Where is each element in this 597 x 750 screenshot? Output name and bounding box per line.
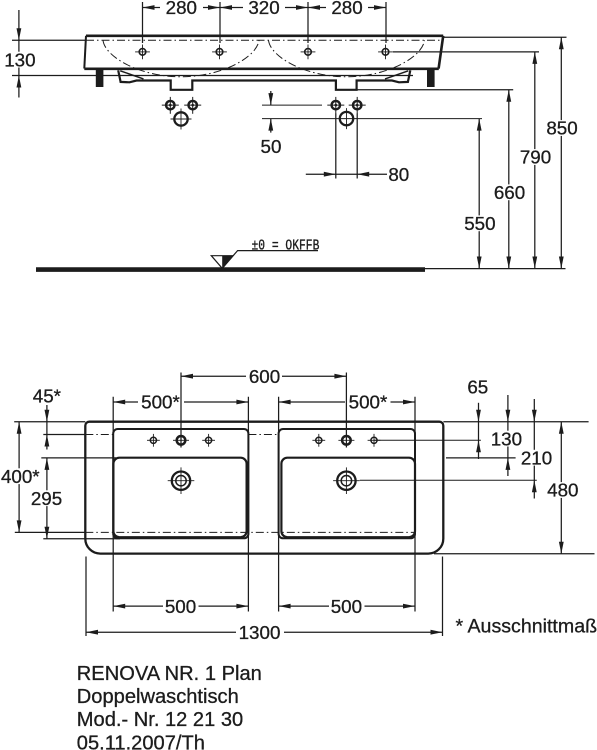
svg-text:600: 600 — [249, 366, 280, 387]
dim text 550 — [462, 215, 498, 231]
left ext: bowl rim rear (295) — [43, 538, 120, 540]
tap hole 3 (front view) — [305, 49, 312, 56]
svg-text:65: 65 — [467, 376, 488, 397]
svg-text:130: 130 — [4, 49, 35, 70]
dimension 500* left — [113, 400, 125, 405]
right wall bracket (black) — [427, 70, 435, 87]
svg-text:280: 280 — [331, 0, 362, 18]
cutout front line (dash-dot) centre segment — [248, 434, 278, 436]
dimension 790 — [532, 52, 537, 64]
svg-text:400*: 400* — [1, 466, 40, 487]
dimension 295 — [45, 458, 50, 470]
svg-text:50: 50 — [261, 136, 282, 157]
svg-text:Doppelwaschtisch: Doppelwaschtisch — [77, 686, 239, 708]
left under-edge chamfer line — [120, 71, 143, 79]
1300 left extension — [85, 557, 87, 637]
svg-text:130: 130 — [491, 428, 522, 449]
floor line (thin extension) — [418, 268, 566, 270]
dim text 660 — [492, 184, 528, 200]
basin right edge (front view) — [439, 36, 444, 69]
dimension 500* right — [279, 400, 291, 405]
130 top extension line — [12, 39, 86, 41]
dimension 500 bottom left — [113, 604, 125, 609]
dim text 850 — [544, 120, 580, 136]
svg-text:05.11.2007/Th: 05.11.2007/Th — [77, 732, 205, 750]
dimension 210 — [533, 399, 535, 422]
tap hole group at x=181.0 (plan) — [150, 437, 156, 443]
left ext: cutout front (45*) — [43, 434, 85, 436]
660 top extension line (drain box level) — [357, 89, 513, 91]
svg-text:45*: 45* — [33, 386, 62, 407]
dimension line 280/320/280 — [143, 7, 161, 9]
dim text 400* — [0, 468, 42, 484]
under-basin profile with fixing lugs and two drain boxes — [118, 70, 410, 90]
right under-edge chamfer line — [385, 71, 408, 79]
dim text 45* — [29, 388, 65, 404]
left deck edge (plan) — [113, 429, 248, 538]
right ext: basin rear edge (480) — [434, 553, 595, 555]
dim text 130 — [2, 52, 38, 68]
left ext: basin front edge — [14, 421, 85, 423]
svg-text:500: 500 — [331, 596, 362, 617]
svg-text:550: 550 — [464, 213, 495, 234]
dimension 850 — [559, 37, 564, 49]
cutout front line (dash-dot) left segment — [85, 434, 113, 436]
floor level symbol ±0 = OKFFB — [211, 256, 233, 269]
left bowl water supply symbols — [166, 101, 174, 109]
left ext: cutout rear (400*) — [15, 531, 86, 533]
left wall bracket (black) — [96, 70, 104, 87]
dim text 790 — [518, 149, 554, 165]
dimension 65 — [478, 403, 480, 422]
right deck edge (plan) — [279, 429, 415, 538]
dimension 45* — [46, 405, 48, 422]
left bowl drain symbol — [174, 112, 187, 125]
dimension 660 — [506, 90, 511, 102]
svg-text:Mod.- Nr. 12 21 30: Mod.- Nr. 12 21 30 — [77, 709, 243, 731]
790 top extension line (tap hole level) — [393, 51, 539, 53]
drain at x=346.4 (plan) — [337, 472, 355, 490]
svg-text:320: 320 — [248, 0, 279, 18]
dimension 480 — [559, 422, 564, 434]
svg-text:80: 80 — [388, 164, 409, 185]
right bowl rim (plan) — [281, 458, 415, 538]
svg-text:±0 = OKFFB: ±0 = OKFFB — [252, 237, 320, 254]
dimension 600 — [181, 374, 193, 379]
tap hole 1 (front view) — [139, 49, 146, 56]
svg-text:295: 295 — [31, 488, 62, 509]
dimension 550 — [477, 119, 482, 131]
ext line drain level to 210 dim — [360, 479, 537, 481]
extension lines through plan view (cutout edges) — [112, 397, 114, 612]
right bowl drain symbol + 550 reference line — [262, 118, 482, 120]
svg-text:1300: 1300 — [239, 622, 281, 643]
level text — [252, 237, 320, 254]
extension lines for 600 dim (tap centres) — [180, 373, 182, 448]
cutout rear line (dash-dot) — [85, 531, 415, 533]
right ext: basin front edge — [443, 421, 588, 423]
svg-text:480: 480 — [547, 480, 578, 501]
dimension 80 (supply spacing) — [335, 114, 337, 179]
svg-text:500*: 500* — [141, 392, 180, 413]
svg-text:500: 500 — [165, 596, 196, 617]
svg-text:660: 660 — [494, 182, 525, 203]
svg-text:790: 790 — [520, 147, 551, 168]
130 bottom extension line (full width) — [12, 75, 413, 77]
850 top extension line — [443, 36, 566, 38]
dim text 295 — [29, 490, 65, 506]
right bowl hidden contour arc — [269, 40, 425, 77]
dimension 130 (plan right) — [507, 395, 509, 422]
dim text 480 — [545, 482, 581, 498]
dim text 130 plan — [489, 431, 525, 447]
dim text 210 — [519, 450, 555, 466]
dimension 130 (front view left) — [18, 10, 20, 40]
tap hole 4 (front view) — [382, 49, 389, 56]
svg-text:RENOVA NR. 1 Plan: RENOVA NR. 1 Plan — [77, 663, 262, 685]
tap hole group at x=346.4 (plan) — [316, 437, 322, 443]
svg-text:500*: 500* — [349, 392, 388, 413]
drain at x=181.0 (plan) — [172, 472, 190, 490]
svg-text:850: 850 — [546, 118, 577, 139]
dimension 400* — [17, 422, 22, 434]
floor line (thick) — [36, 267, 425, 272]
left bowl hidden contour arc — [103, 40, 259, 77]
basin left edge (front view) — [84, 36, 86, 69]
right bowl water supply symbols — [262, 104, 322, 106]
basin apron bottom edge (front view) — [84, 68, 439, 71]
svg-text:210: 210 — [521, 447, 552, 468]
1300 right extension — [442, 557, 444, 637]
extension lines for tap hole dimensions — [142, 2, 144, 43]
left bowl rim (plan) — [113, 458, 246, 538]
dimension 50 (supply vs drain height) — [270, 91, 272, 105]
basin outline (plan view) — [85, 422, 443, 554]
ext line tap level to 65 dim — [374, 439, 481, 441]
dimension 500 bottom right — [279, 604, 291, 609]
tap hole 2 (front view) — [216, 49, 223, 56]
svg-text:280: 280 — [166, 0, 197, 18]
svg-text:* Ausschnittmaß: * Ausschnittmaß — [456, 615, 597, 637]
right ext: bowl rim front (130) — [446, 457, 516, 459]
left ext: bowl rim front (295) — [41, 457, 116, 459]
basin top edge (front view) — [86, 34, 443, 37]
dimension 1300 — [86, 630, 98, 635]
hidden rim line (dash-dot) — [86, 39, 443, 41]
